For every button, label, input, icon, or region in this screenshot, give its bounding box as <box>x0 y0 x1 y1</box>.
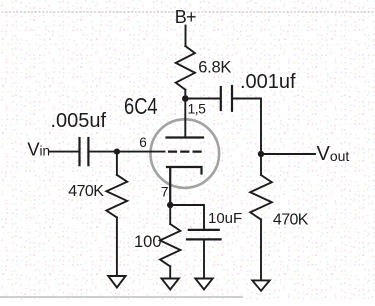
node plate junction <box>182 95 189 102</box>
top faint dotted rule <box>2 11 373 13</box>
ground right <box>252 280 269 290</box>
wire B+ to R1 <box>185 26 187 47</box>
ground under R3 <box>162 279 179 290</box>
grid dashed element <box>169 151 201 153</box>
svg-text:10uF: 10uF <box>208 210 242 227</box>
wire node to R4 <box>260 154 262 175</box>
resistor 470K right <box>250 175 272 220</box>
wire cathode node to C3 <box>170 205 204 229</box>
svg-text:470K: 470K <box>68 183 104 200</box>
svg-text:6C4: 6C4 <box>124 94 158 120</box>
capacitor .001uf <box>221 86 232 111</box>
resistor 470K left <box>106 175 127 218</box>
node grid junction <box>114 149 120 155</box>
plate lead <box>184 99 186 138</box>
svg-text:470K: 470K <box>273 212 309 229</box>
wire grid lead pin 6 <box>117 151 165 153</box>
wire grid node to R2 <box>116 152 118 175</box>
svg-text:.001uf: .001uf <box>240 71 296 93</box>
node output junction <box>258 151 264 157</box>
svg-text:6: 6 <box>139 135 147 150</box>
cathode element <box>167 167 202 205</box>
wire C3 to ground <box>203 239 205 278</box>
ground left <box>108 276 125 288</box>
svg-text:.005uf: .005uf <box>51 110 107 132</box>
wire C1 to grid node <box>89 151 117 153</box>
wire node to Vout <box>261 153 315 155</box>
capacitor 10uF <box>187 230 221 240</box>
wire R4 to ground <box>260 220 262 281</box>
wire R3 to ground <box>169 266 171 278</box>
wire node to C2 <box>185 98 220 100</box>
svg-text:1,5: 1,5 <box>188 101 207 117</box>
node cathode junction <box>167 202 173 208</box>
svg-text:6.8K: 6.8K <box>198 59 231 77</box>
resistor 6.8K <box>176 46 195 90</box>
wire cathode node to R3 <box>169 205 171 224</box>
tube envelope 6C4 <box>151 119 220 188</box>
svg-text:B+: B+ <box>175 7 196 27</box>
resistor 100 <box>160 224 180 266</box>
wire C2 to output node <box>233 99 261 155</box>
wire R2 to ground <box>116 217 118 276</box>
plate bar <box>167 136 204 138</box>
ground under C3 <box>195 279 212 290</box>
svg-text:100: 100 <box>134 233 162 251</box>
capacitor .005uf <box>80 138 89 165</box>
svg-text:7: 7 <box>161 184 169 200</box>
bottom faint rule <box>0 296 242 298</box>
wire Vin to C1 <box>49 151 78 153</box>
wire R1 to plate node <box>184 90 186 99</box>
